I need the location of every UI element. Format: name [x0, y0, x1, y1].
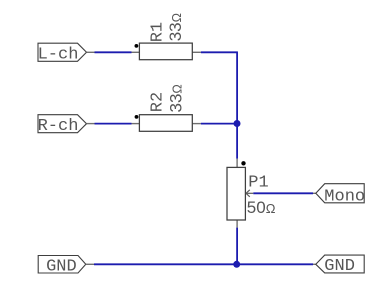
label R-ch: [38, 115, 87, 136]
resistor R1: [132, 13, 201, 60]
wire R-ch to R2: [87, 123, 132, 125]
potentiometer P1: [227, 159, 276, 228]
svg-text:GND: GND: [324, 257, 355, 276]
svg-text:L-ch: L-ch: [38, 46, 79, 65]
svg-text:R-ch: R-ch: [38, 117, 79, 136]
wire P1 to GND rail: [236, 228, 238, 265]
svg-text:33Ω: 33Ω: [166, 13, 185, 41]
label Mono: [316, 184, 365, 207]
wire R2 to bus: [201, 123, 237, 125]
resistor R2: [132, 84, 201, 131]
svg-text:33Ω: 33Ω: [166, 84, 185, 112]
svg-text:50Ω: 50Ω: [247, 198, 276, 217]
label GND left: [38, 256, 86, 277]
label L-ch: [38, 43, 87, 64]
wire vertical bus: [236, 52, 238, 158]
wire L-ch to R1: [87, 51, 132, 53]
wiper arrow: [246, 192, 253, 194]
wire R1 to bus: [201, 51, 238, 53]
svg-text:R1: R1: [148, 22, 167, 42]
svg-text:GND: GND: [46, 257, 77, 276]
svg-text:Mono: Mono: [324, 187, 365, 206]
junction GND rail: [233, 261, 240, 268]
svg-text:P1: P1: [248, 174, 268, 193]
label GND right: [316, 255, 364, 276]
wire GND rail: [86, 263, 316, 265]
svg-text:R2: R2: [148, 92, 167, 112]
wire Mono to wiper: [253, 192, 315, 194]
junction bus/R2: [234, 120, 241, 127]
